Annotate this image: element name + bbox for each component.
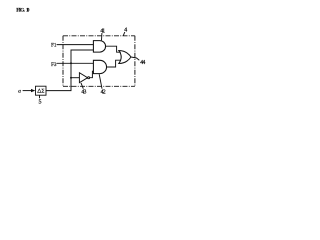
wire F1 to AND gate 41 bbox=[57, 44, 94, 46]
junction dot at inverter tap bbox=[70, 77, 72, 79]
wire tap to inverter 43 bbox=[71, 77, 79, 79]
delta-sigma symbol bbox=[38, 89, 41, 93]
junction dot on F3 line bbox=[70, 62, 72, 64]
leader for label 5 bbox=[39, 95, 41, 98]
svg-text:F1: F1 bbox=[51, 43, 57, 49]
svg-text:41: 41 bbox=[100, 29, 105, 35]
AND gate 41 bbox=[93, 41, 105, 53]
dashed block 4 bottom edge bbox=[63, 85, 135, 87]
svg-text:42: 42 bbox=[101, 90, 106, 96]
leader for label 41 bbox=[101, 33, 103, 40]
leader for label 43 bbox=[81, 83, 83, 89]
wire OR output bbox=[131, 57, 139, 60]
svg-text:a: a bbox=[18, 89, 21, 95]
svg-text:44: 44 bbox=[140, 60, 145, 66]
OR gate 44 bbox=[119, 51, 131, 64]
svg-text:5: 5 bbox=[39, 99, 42, 105]
wire a to modulator bbox=[23, 90, 32, 92]
dashed block 4 right edge bbox=[134, 36, 136, 87]
wire AND 42 to OR 44 bbox=[107, 60, 121, 67]
dashed block 4 top edge bbox=[63, 35, 135, 37]
wire modulator output bbox=[46, 50, 93, 91]
inverter 43 triangle bbox=[79, 73, 87, 83]
wire AND 41 to OR 44 bbox=[106, 46, 121, 52]
svg-text:10: 10 bbox=[26, 7, 30, 13]
svg-text:FIG.: FIG. bbox=[16, 7, 25, 13]
leader for label 42 bbox=[99, 74, 102, 89]
svg-text:F3: F3 bbox=[51, 62, 57, 68]
svg-text:43: 43 bbox=[81, 90, 86, 96]
delta-sigma modulator box 5 bbox=[36, 86, 47, 95]
wire inverter to AND gate 42 bbox=[90, 71, 94, 78]
wire F3 to AND gate 42 bbox=[57, 62, 94, 64]
leader for label 4 bbox=[123, 32, 125, 36]
AND gate 42 bbox=[93, 60, 106, 73]
inverter 43 bubble bbox=[88, 77, 90, 79]
arrowhead into modulator bbox=[31, 89, 35, 92]
dashed block 4 left edge bbox=[62, 36, 64, 87]
